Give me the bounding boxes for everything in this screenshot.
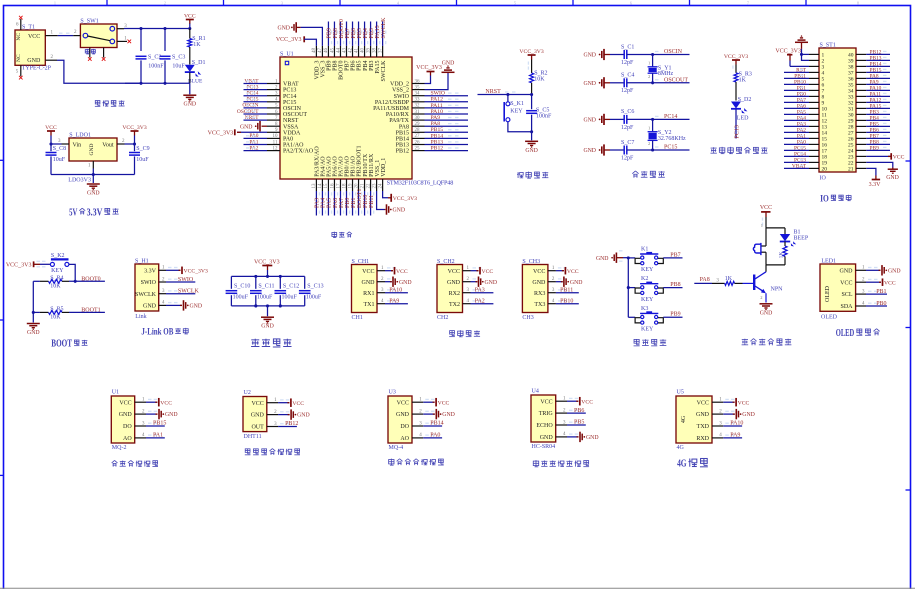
svg-text:PB12: PB12 <box>396 149 409 155</box>
svg-text:RX2: RX2 <box>449 291 460 297</box>
svg-text:21: 21 <box>360 183 365 189</box>
svg-text:PA2: PA2 <box>475 299 485 305</box>
svg-text:GND: GND <box>190 304 203 310</box>
svg-text:VCC: VCC <box>581 399 593 405</box>
svg-text:15: 15 <box>324 183 329 189</box>
svg-text:10uF: 10uF <box>136 157 149 163</box>
svg-text:S_CH2: S_CH2 <box>437 259 455 265</box>
svg-text:ECHO: ECHO <box>536 423 553 429</box>
svg-text:GND: GND <box>119 412 133 418</box>
svg-text:100nF: 100nF <box>536 113 552 119</box>
svg-text:OLED: OLED <box>836 328 855 339</box>
svg-text:TYPE-C-2P: TYPE-C-2P <box>22 66 52 72</box>
svg-text:J-Link OB: J-Link OB <box>141 328 173 338</box>
svg-text:PC14: PC14 <box>664 114 677 120</box>
svg-text:U2: U2 <box>244 390 251 396</box>
svg-text:VCC: VCC <box>45 125 57 131</box>
svg-text:PB15: PB15 <box>431 127 444 133</box>
svg-text:TX3: TX3 <box>534 302 545 308</box>
svg-text:12pF: 12pF <box>621 155 634 161</box>
svg-text:VCC: VCC <box>397 400 409 406</box>
svg-text:PC13: PC13 <box>735 125 741 138</box>
svg-text:43: 43 <box>342 48 347 54</box>
svg-text:OSCIN: OSCIN <box>242 103 258 109</box>
svg-text:1: 1 <box>648 61 650 66</box>
svg-text:GND: GND <box>760 310 773 316</box>
svg-text:PA1/AO: PA1/AO <box>283 143 304 149</box>
svg-text:GND: GND <box>583 118 596 124</box>
svg-text:PB11: PB11 <box>369 195 375 208</box>
svg-text:5V: 5V <box>69 207 78 218</box>
svg-text:KEY: KEY <box>510 108 523 114</box>
svg-text:12: 12 <box>273 146 279 151</box>
svg-text:GND: GND <box>87 191 100 197</box>
svg-text:GND: GND <box>586 435 599 441</box>
svg-text:SWCLK: SWCLK <box>135 292 157 298</box>
svg-text:RX1: RX1 <box>363 291 374 297</box>
svg-text:PC15: PC15 <box>664 145 677 151</box>
svg-text:100uF: 100uF <box>233 295 249 301</box>
svg-text:S_C1: S_C1 <box>621 44 634 50</box>
svg-text:SWCLK: SWCLK <box>381 17 387 39</box>
svg-text:S_R5: S_R5 <box>50 307 63 313</box>
svg-text:36: 36 <box>415 79 421 84</box>
svg-text:HC-SR04: HC-SR04 <box>532 444 556 450</box>
svg-text:S_C2: S_C2 <box>148 54 161 60</box>
svg-text:16: 16 <box>330 183 335 189</box>
svg-text:TX2: TX2 <box>449 302 460 308</box>
svg-text:29: 29 <box>415 122 421 127</box>
svg-text:S_CH1: S_CH1 <box>352 259 370 265</box>
svg-text:PA9/TX: PA9/TX <box>389 118 409 124</box>
svg-text:VCC: VCC <box>540 399 552 405</box>
svg-text:GND: GND <box>583 81 596 87</box>
svg-text:S_C12: S_C12 <box>283 283 299 289</box>
svg-text:PA0: PA0 <box>430 433 440 439</box>
svg-text:10K: 10K <box>50 315 61 321</box>
svg-text:SWIO: SWIO <box>431 91 446 97</box>
svg-text:PB14: PB14 <box>430 421 443 427</box>
svg-text:GND: GND <box>399 280 412 286</box>
svg-text:VCC_3V3: VCC_3V3 <box>724 54 748 60</box>
svg-text:10K: 10K <box>50 284 61 290</box>
svg-text:VCC: VCC <box>251 401 263 407</box>
svg-text:LED: LED <box>737 116 749 122</box>
svg-text:KEY: KEY <box>641 297 654 303</box>
svg-text:OSCOUT: OSCOUT <box>664 78 688 84</box>
svg-text:8MHz: 8MHz <box>658 71 674 77</box>
svg-text:37: 37 <box>378 48 383 54</box>
svg-text:32: 32 <box>415 104 421 109</box>
svg-text:6: 6 <box>630 2 632 6</box>
svg-text:GND: GND <box>277 25 290 31</box>
svg-text:K1: K1 <box>641 247 648 253</box>
svg-text:PA9: PA9 <box>431 115 441 121</box>
svg-text:RX3: RX3 <box>534 291 545 297</box>
svg-text:VCC: VCC <box>396 269 408 275</box>
svg-text:PA8: PA8 <box>399 124 409 130</box>
svg-text:U5: U5 <box>677 389 684 395</box>
svg-text:4G: 4G <box>677 459 687 470</box>
svg-text:NRST: NRST <box>283 118 299 124</box>
svg-text:PB6: PB6 <box>574 408 584 414</box>
svg-text:IO: IO <box>820 176 827 182</box>
svg-text:2: 2 <box>648 74 650 79</box>
svg-text:SWCLK: SWCLK <box>178 289 200 295</box>
svg-text:GND: GND <box>297 413 310 419</box>
svg-text:U4: U4 <box>532 388 539 394</box>
svg-text:19: 19 <box>348 183 353 189</box>
svg-text:Vout: Vout <box>102 142 114 148</box>
svg-text:VCC_3V3: VCC_3V3 <box>276 37 302 43</box>
svg-text:GND: GND <box>393 208 406 214</box>
svg-text:OSCOUT: OSCOUT <box>283 112 307 118</box>
svg-text:26: 26 <box>415 140 421 145</box>
svg-text:41: 41 <box>354 48 359 54</box>
svg-text:25: 25 <box>415 146 421 151</box>
svg-text:S_C6: S_C6 <box>621 109 634 115</box>
svg-text:GND: GND <box>696 412 710 418</box>
svg-text:45: 45 <box>330 48 335 54</box>
svg-text:GND: GND <box>840 268 854 274</box>
svg-text:BOOT1: BOOT1 <box>81 307 100 313</box>
svg-text:1K: 1K <box>725 276 733 282</box>
svg-text:VCC: VCC <box>567 269 579 275</box>
svg-text:3.3V: 3.3V <box>87 207 103 218</box>
svg-text:KEY: KEY <box>51 268 64 274</box>
svg-text:20: 20 <box>822 167 828 173</box>
svg-text:VCC: VCC <box>160 400 172 406</box>
svg-text:S_K1: S_K1 <box>510 101 524 107</box>
svg-text:GND: GND <box>540 435 554 441</box>
svg-text:PA10: PA10 <box>389 288 402 294</box>
svg-text:VCC: VCC <box>184 14 196 20</box>
svg-text:GND: GND <box>442 412 455 418</box>
svg-text:DO: DO <box>400 424 409 430</box>
svg-text:TRIG: TRIG <box>539 411 554 417</box>
svg-text:PA10: PA10 <box>431 109 444 115</box>
svg-text:GND: GND <box>396 412 410 418</box>
svg-text:SDA: SDA <box>840 304 853 310</box>
svg-text:DHT11: DHT11 <box>244 434 262 440</box>
svg-text:S_C7: S_C7 <box>621 140 634 146</box>
svg-text:VCC: VCC <box>438 400 450 406</box>
svg-text:NRST: NRST <box>485 89 501 95</box>
svg-text:S_C8: S_C8 <box>53 146 66 152</box>
svg-text:4: 4 <box>397 2 399 6</box>
svg-text:4G: 4G <box>681 415 687 423</box>
svg-text:U1: U1 <box>112 389 119 395</box>
svg-text:33: 33 <box>415 98 421 103</box>
svg-text:10uF: 10uF <box>172 63 185 69</box>
svg-text:27: 27 <box>415 134 421 139</box>
svg-text:PA9: PA9 <box>389 299 399 305</box>
svg-text:PB9: PB9 <box>670 312 680 318</box>
svg-text:100uF: 100uF <box>306 295 322 301</box>
svg-text:VCC_3V3: VCC_3V3 <box>254 259 280 265</box>
svg-text:42: 42 <box>348 48 353 54</box>
svg-text:100uF: 100uF <box>257 295 273 301</box>
svg-text:TX1: TX1 <box>364 302 375 308</box>
svg-text:1: 1 <box>54 2 56 6</box>
svg-text:12pF: 12pF <box>621 88 634 94</box>
svg-text:35: 35 <box>415 85 421 90</box>
svg-text:RXD: RXD <box>696 436 709 442</box>
svg-text:PA8: PA8 <box>431 121 441 127</box>
svg-text:3: 3 <box>281 2 283 6</box>
svg-text:1K: 1K <box>193 42 201 48</box>
svg-text:12pF: 12pF <box>621 60 634 66</box>
svg-text:VCC_3V3: VCC_3V3 <box>6 262 32 268</box>
svg-text:40: 40 <box>360 48 365 54</box>
svg-text:S_C3: S_C3 <box>172 54 185 60</box>
svg-text:24: 24 <box>378 183 383 189</box>
svg-text:GND: GND <box>742 412 755 418</box>
svg-text:1: 1 <box>761 223 763 228</box>
svg-text:PB12: PB12 <box>431 146 444 152</box>
svg-text:3.3V: 3.3V <box>869 182 882 188</box>
svg-text:GND: GND <box>143 304 157 310</box>
svg-text:10K: 10K <box>534 76 545 82</box>
svg-text:4G: 4G <box>677 445 685 451</box>
svg-text:44: 44 <box>336 48 341 54</box>
svg-text:S_ST1: S_ST1 <box>820 42 836 48</box>
svg-text:LDO3V3: LDO3V3 <box>68 178 91 184</box>
svg-text:S_C13: S_C13 <box>307 283 323 289</box>
svg-text:S_C9: S_C9 <box>136 146 149 152</box>
svg-text:18: 18 <box>342 183 347 189</box>
svg-text:S_CH3: S_CH3 <box>522 259 540 265</box>
svg-text:NC: NC <box>16 33 22 41</box>
svg-text:46: 46 <box>324 48 329 54</box>
svg-text:S_C11: S_C11 <box>258 283 274 289</box>
svg-text:PB11: PB11 <box>560 288 573 294</box>
svg-text:PA1: PA1 <box>153 433 163 439</box>
svg-text:K2: K2 <box>641 276 648 282</box>
svg-text:GND: GND <box>184 102 197 108</box>
svg-text:32.768KHz: 32.768KHz <box>658 136 686 142</box>
svg-text:VCC_3V3: VCC_3V3 <box>184 268 208 274</box>
svg-text:AO: AO <box>123 436 132 442</box>
svg-text:PC14: PC14 <box>283 94 296 100</box>
svg-text:OSCIN: OSCIN <box>664 49 683 55</box>
svg-text:GND: GND <box>532 280 546 286</box>
svg-text:U3: U3 <box>389 389 396 395</box>
svg-text:GND: GND <box>525 148 538 154</box>
svg-text:VCC: VCC <box>893 155 905 161</box>
svg-text:21: 21 <box>848 167 854 173</box>
svg-text:VSSA: VSSA <box>283 124 299 130</box>
svg-text:S_K2: S_K2 <box>51 253 65 259</box>
svg-text:PA3: PA3 <box>475 288 485 294</box>
svg-text:LED1: LED1 <box>821 259 836 265</box>
svg-text:GND: GND <box>570 280 583 286</box>
svg-text:VCC: VCC <box>738 400 750 406</box>
svg-text:PB14: PB14 <box>396 137 409 143</box>
svg-text:PB0: PB0 <box>876 301 886 307</box>
svg-text:22: 22 <box>366 183 371 189</box>
svg-text:2: 2 <box>648 141 650 146</box>
svg-text:S_R4: S_R4 <box>50 275 63 281</box>
svg-text:PA11/USBDM: PA11/USBDM <box>373 106 410 112</box>
svg-text:1: 1 <box>648 125 650 130</box>
svg-text:PA10: PA10 <box>730 421 743 427</box>
svg-text:47: 47 <box>318 48 323 54</box>
svg-text:GND: GND <box>27 330 40 336</box>
svg-text:SWIO: SWIO <box>394 94 410 100</box>
svg-text:S_U1: S_U1 <box>280 51 294 57</box>
svg-text:VCC: VCC <box>448 269 460 275</box>
svg-text:GND: GND <box>596 256 609 262</box>
svg-text:PB13: PB13 <box>396 143 409 149</box>
svg-text:VSS_2: VSS_2 <box>392 88 409 94</box>
svg-text:GND: GND <box>888 268 901 274</box>
svg-text:3.3V: 3.3V <box>144 268 157 274</box>
svg-text:VDD_2: VDD_2 <box>390 82 409 88</box>
svg-text:8: 8 <box>857 2 859 6</box>
svg-text:PB1: PB1 <box>876 289 886 295</box>
svg-text:PB9: PB9 <box>870 145 880 151</box>
svg-text:5: 5 <box>514 2 516 6</box>
svg-text:NPN: NPN <box>771 287 784 293</box>
svg-text:GND: GND <box>261 324 274 330</box>
svg-text:10: 10 <box>273 134 279 139</box>
svg-text:PA12: PA12 <box>431 97 444 103</box>
svg-text:SWIO: SWIO <box>178 277 194 283</box>
svg-text:SWCLK: SWCLK <box>381 60 387 82</box>
svg-text:TXD: TXD <box>697 424 710 430</box>
svg-text:31: 31 <box>415 110 421 115</box>
svg-text:S_H1: S_H1 <box>135 258 149 264</box>
svg-text:MQ-4: MQ-4 <box>389 445 404 451</box>
svg-text:PA11: PA11 <box>431 103 443 109</box>
svg-text:Link: Link <box>135 314 146 320</box>
svg-text:28: 28 <box>415 128 421 133</box>
svg-text:BOOT: BOOT <box>51 339 72 350</box>
svg-text:PA0: PA0 <box>283 137 293 143</box>
svg-text:GND: GND <box>583 148 596 154</box>
svg-text:Vin: Vin <box>73 142 82 148</box>
svg-text:PA10/RX: PA10/RX <box>386 112 410 118</box>
svg-text:GND: GND <box>442 60 455 66</box>
svg-text:VCC_3V3: VCC_3V3 <box>416 65 442 71</box>
svg-text:VCC_3V3: VCC_3V3 <box>208 130 234 136</box>
svg-text:GND: GND <box>251 413 265 419</box>
svg-text:VCC: VCC <box>292 401 304 407</box>
svg-text:48: 48 <box>312 48 317 54</box>
svg-text:VCC_3V3: VCC_3V3 <box>122 125 146 131</box>
svg-text:DO: DO <box>123 424 132 430</box>
svg-text:IO: IO <box>820 193 829 203</box>
svg-text:CH2: CH2 <box>437 315 448 321</box>
svg-text:OLED: OLED <box>821 315 838 321</box>
svg-text:GND: GND <box>89 144 95 156</box>
svg-text:OSCIN: OSCIN <box>283 106 302 112</box>
svg-text:MQ-2: MQ-2 <box>112 445 127 451</box>
svg-text:PB12: PB12 <box>285 421 298 427</box>
svg-text:BEEP: BEEP <box>794 236 809 242</box>
svg-text:14: 14 <box>318 183 323 189</box>
svg-text:VCC: VCC <box>840 280 852 286</box>
svg-text:PB7: PB7 <box>670 252 680 258</box>
svg-text:PB15: PB15 <box>153 421 166 427</box>
svg-text:KEY: KEY <box>641 267 654 273</box>
svg-text:PC13: PC13 <box>283 88 296 94</box>
svg-text:12pF: 12pF <box>621 125 634 131</box>
svg-text:PA9: PA9 <box>730 433 740 439</box>
svg-text:PA2/TX/AO: PA2/TX/AO <box>283 149 314 155</box>
svg-text:VBAT: VBAT <box>283 82 299 88</box>
svg-text:OUT: OUT <box>251 425 264 431</box>
svg-text:23: 23 <box>372 183 377 189</box>
svg-text:GND: GND <box>447 280 461 286</box>
svg-text:VCC_3V3: VCC_3V3 <box>519 49 543 55</box>
svg-text:BOOT0: BOOT0 <box>81 276 100 282</box>
svg-text:KEY: KEY <box>641 327 654 333</box>
svg-text:11: 11 <box>273 140 278 145</box>
svg-text:VBAT: VBAT <box>792 163 807 169</box>
svg-text:STM32F103C8T6_LQFP48: STM32F103C8T6_LQFP48 <box>387 180 454 187</box>
svg-text:GND: GND <box>485 280 498 286</box>
svg-text:SCL: SCL <box>841 292 852 298</box>
svg-text:SWIO: SWIO <box>141 280 157 286</box>
svg-text:PB8: PB8 <box>670 282 680 288</box>
svg-text:PB10: PB10 <box>560 299 573 305</box>
svg-text:VCC: VCC <box>760 205 772 211</box>
svg-text:VCC: VCC <box>533 269 545 275</box>
svg-text:GND: GND <box>165 412 178 418</box>
svg-text:10uF: 10uF <box>53 157 66 163</box>
svg-text:100nF: 100nF <box>148 63 164 69</box>
svg-text:S_T1: S_T1 <box>22 24 35 30</box>
svg-text:VCC: VCC <box>884 280 896 286</box>
svg-text:GND: GND <box>240 124 253 130</box>
svg-text:1K: 1K <box>739 77 747 83</box>
svg-text:VCC_3V3: VCC_3V3 <box>393 196 417 202</box>
svg-text:OLED: OLED <box>825 285 831 302</box>
svg-text:PB15: PB15 <box>396 130 409 136</box>
svg-text:S_C10: S_C10 <box>234 283 250 289</box>
svg-text:K3: K3 <box>641 306 648 312</box>
svg-text:PA12/USBDP: PA12/USBDP <box>375 100 410 106</box>
svg-text:AO: AO <box>400 436 409 442</box>
svg-text:39: 39 <box>366 48 371 54</box>
svg-text:VDD_1: VDD_1 <box>381 158 387 177</box>
svg-text:100uF: 100uF <box>282 295 298 301</box>
svg-text:VCC_3V3: VCC_3V3 <box>775 49 801 55</box>
svg-text:38: 38 <box>372 48 377 54</box>
svg-text:VCC: VCC <box>28 34 40 40</box>
svg-text:30: 30 <box>415 116 421 121</box>
svg-text:20: 20 <box>354 183 359 189</box>
svg-text:S_LDO1: S_LDO1 <box>69 132 91 138</box>
svg-text:VCC: VCC <box>697 400 709 406</box>
svg-text:PC15: PC15 <box>283 100 296 106</box>
svg-text:34: 34 <box>415 92 421 97</box>
svg-text:S_C4: S_C4 <box>621 73 634 79</box>
svg-text:VCC: VCC <box>482 269 494 275</box>
svg-text:7: 7 <box>747 2 749 6</box>
svg-text:2: 2 <box>164 2 166 6</box>
svg-text:VCC: VCC <box>119 400 131 406</box>
svg-text:1K: 1K <box>778 252 784 259</box>
svg-text:13: 13 <box>312 183 317 189</box>
svg-text:PB5: PB5 <box>574 420 584 426</box>
svg-text:PA8: PA8 <box>700 277 710 283</box>
svg-text:CH3: CH3 <box>522 315 533 321</box>
svg-text:GND: GND <box>362 280 376 286</box>
svg-text:GND: GND <box>583 53 596 59</box>
